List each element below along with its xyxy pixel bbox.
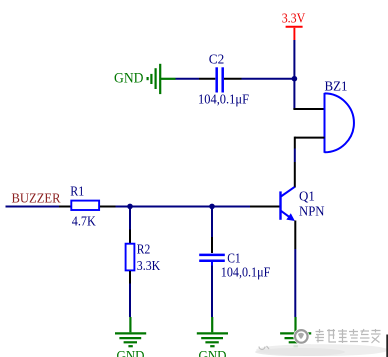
svg-text:Q1: Q1 — [299, 190, 315, 205]
capacitor C2 — [217, 67, 223, 92]
wire BZ1 to Q1 collector — [294, 137, 296, 188]
junction node power/C2/BZ1 — [292, 76, 298, 82]
pin C1.1 — [211, 237, 213, 253]
pin R2.1 — [129, 230, 131, 244]
svg-text:104,0.1μF: 104,0.1μF — [221, 265, 271, 280]
buzzer BZ1 — [325, 93, 354, 153]
svg-text:BUZZER: BUZZER — [12, 192, 62, 207]
wire 3.3V down to junction — [293, 40, 295, 109]
svg-text:104,0.1μF: 104,0.1μF — [198, 93, 249, 108]
svg-text:GND: GND — [199, 348, 227, 357]
junction node C1 tap — [209, 204, 215, 210]
svg-text:NPN: NPN — [299, 205, 325, 220]
svg-text:3.3K: 3.3K — [137, 259, 161, 274]
pin Q1 base — [250, 206, 281, 208]
transistor Q1 — [281, 187, 295, 221]
svg-text:GND: GND — [117, 348, 145, 357]
svg-text:R2: R2 — [137, 243, 151, 258]
pin R1.1 — [59, 206, 71, 208]
wire C2 to power node — [242, 78, 294, 80]
watermark text (stylized) — [259, 329, 381, 350]
wire junction down to C1 — [211, 207, 213, 238]
ground GND (bottom middle) — [197, 317, 228, 346]
wire junction down to R2 — [129, 207, 131, 230]
pin BZ1.2 — [295, 137, 325, 139]
pin C2.1 — [199, 78, 215, 80]
wire R2 to ground — [129, 284, 131, 318]
wire Q1 emitter to ground — [294, 249, 296, 317]
svg-text:GND: GND — [114, 70, 144, 86]
ground GND (bottom right) — [280, 317, 311, 346]
watermark shadow blob — [256, 344, 388, 356]
power port 3.3V — [286, 27, 303, 40]
resistor R2 — [126, 244, 135, 271]
pin R2.2 — [129, 271, 131, 284]
svg-text:R1: R1 — [70, 184, 84, 199]
junction node R2 tap — [127, 204, 133, 210]
watermark logo — [293, 328, 309, 344]
pin BZ1.1 — [293, 108, 324, 110]
screenshot border artifact (bottom right) — [386, 335, 388, 357]
pin Q1 emitter lead — [294, 221, 296, 250]
capacitor C1 — [199, 255, 225, 266]
svg-text:BZ1: BZ1 — [325, 79, 348, 94]
wire BUZZER net to R1 — [6, 206, 60, 208]
power port GND (earth, rotated) — [148, 64, 176, 94]
svg-text:3.3V: 3.3V — [282, 12, 306, 27]
pin C2.2 — [224, 78, 242, 80]
resistor R1 — [71, 201, 99, 210]
wire C1 to ground — [211, 266, 213, 318]
wire R1 to Q1 base — [116, 206, 251, 208]
svg-text:4.7K: 4.7K — [72, 214, 96, 229]
wire GND to C2 — [176, 78, 200, 80]
ground GND (bottom left) — [115, 317, 146, 346]
svg-text:C2: C2 — [209, 52, 225, 67]
pin R1.2 — [100, 206, 116, 208]
svg-text:C1: C1 — [227, 251, 241, 266]
